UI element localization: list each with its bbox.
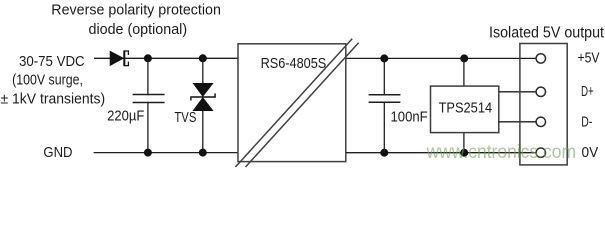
connector J1 terminal block: [520, 44, 567, 165]
svg-text:D+: D+: [581, 83, 594, 100]
wire: U2 ground to bottom rail: [463, 133, 465, 153]
junction: bottom output rail / C2: [380, 149, 388, 157]
IC U2 TPS2514: [431, 86, 499, 133]
svg-text:± 1kV transients): ± 1kV transients): [1, 90, 106, 107]
TVS diode (bidirectional): [191, 58, 215, 152]
svg-text:diode (optional): diode (optional): [89, 21, 188, 38]
svg-text:RS6-4805S: RS6-4805S: [261, 55, 327, 72]
junction: bottom output rail / U2 ground: [460, 149, 468, 157]
svg-text:Reverse polarity protection: Reverse polarity protection: [51, 2, 221, 19]
svg-text:TVS: TVS: [174, 109, 196, 126]
DC-DC converter U1 RS6-4805S: [235, 39, 358, 167]
wire: U2 supply from top rail: [463, 58, 465, 86]
junction: top rail / C1: [144, 54, 152, 62]
terminal pin 0V: [536, 148, 545, 157]
svg-text:30-75 VDC: 30-75 VDC: [19, 53, 85, 70]
wire: U2 to D+ terminal: [499, 91, 536, 93]
wire: top output rail (+5V): [346, 57, 536, 59]
wire: U2 to D- terminal: [499, 121, 536, 123]
svg-text:+5V: +5V: [578, 49, 600, 66]
terminal pin D-: [536, 117, 545, 126]
capacitor C1 220µF: [133, 58, 165, 152]
svg-text:(100V surge,: (100V surge,: [12, 72, 83, 89]
svg-text:GND: GND: [43, 144, 72, 161]
wire: top input rail (VIN to converter): [94, 57, 238, 59]
wire: bottom GND rail (left): [94, 152, 238, 154]
junction: bottom rail / TVS: [199, 149, 207, 157]
svg-text:220µF: 220µF: [107, 107, 144, 124]
svg-text:Isolated 5V output: Isolated 5V output: [489, 24, 605, 41]
diode D1 reverse polarity protection (schottky): [110, 50, 128, 66]
svg-text:0V: 0V: [582, 144, 599, 161]
svg-text:100nF: 100nF: [391, 109, 428, 126]
wire: bottom output rail (0V): [346, 152, 537, 154]
junction: bottom rail / C1: [144, 149, 152, 157]
junction: top rail / TVS: [199, 54, 207, 62]
annotation: Reverse polarity protection diode (optional): [51, 2, 221, 38]
junction: top output rail / C2: [380, 54, 388, 62]
node VIN label: 30-75 VDC (100V surge, ± 1kV transients): [1, 53, 106, 108]
svg-text:D-: D-: [581, 114, 592, 131]
capacitor C2 100nF: [369, 58, 401, 152]
terminal pin +5V: [536, 54, 545, 63]
svg-text:TPS2514: TPS2514: [439, 100, 493, 117]
terminal pin D+: [536, 87, 545, 96]
svg-text:www.cntronics.com: www.cntronics.com: [426, 141, 576, 163]
junction: top output rail / U2 supply: [460, 54, 468, 62]
